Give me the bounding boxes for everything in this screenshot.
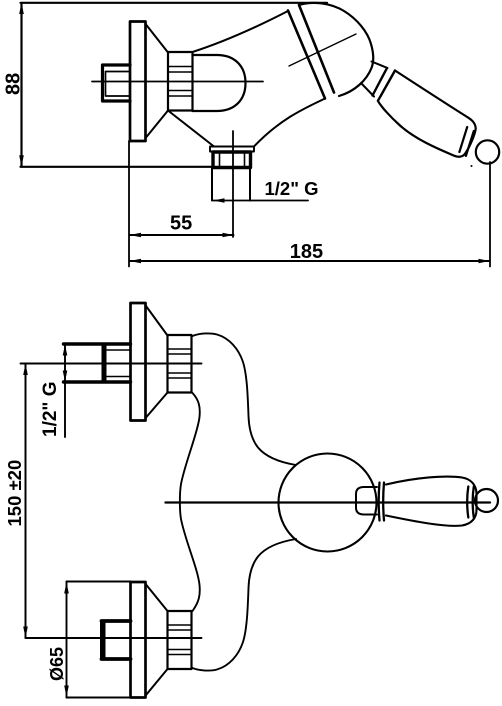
dimension O65 line <box>64 582 69 698</box>
lower inlet centerline <box>26 637 202 639</box>
upper inlet union pipe <box>64 344 131 382</box>
svg-text:1/2" G: 1/2" G <box>265 178 319 199</box>
flange extension line down to dims <box>128 141 130 267</box>
dimension 185 right extension line <box>489 162 491 267</box>
svg-text:185: 185 <box>290 241 323 263</box>
svg-text:Ø65: Ø65 <box>47 647 67 681</box>
handset axis centerline <box>289 34 356 66</box>
neck collar rings front view <box>379 483 384 521</box>
dimension 185 line <box>130 259 490 264</box>
wall flange side view <box>130 22 146 142</box>
neck collar rings <box>373 68 396 101</box>
dimension 88 vertical line <box>19 3 24 167</box>
lower threaded collar <box>168 611 192 669</box>
upper inlet centerline <box>21 363 202 365</box>
valve body circle front view <box>279 454 377 552</box>
centerline of body side view <box>92 81 263 83</box>
handset head outline <box>299 3 373 96</box>
handset neck <box>361 62 388 97</box>
body right upper outline <box>193 333 297 465</box>
lower inlet union nut <box>100 621 131 659</box>
outlet centerline vertical <box>232 131 234 237</box>
flange cone side view <box>146 25 168 138</box>
grip end rings front view <box>467 487 474 518</box>
speck <box>471 165 473 167</box>
lower wall flange front view <box>131 582 146 698</box>
svg-text:150 ±20: 150 ±20 <box>4 460 25 527</box>
svg-text:1/2" G: 1/2" G <box>40 382 61 437</box>
outlet cone left edge <box>168 111 214 147</box>
handle ball end <box>476 140 499 163</box>
upper wall flange front view <box>131 303 146 421</box>
handle ball front view <box>475 489 498 512</box>
body left waist outline <box>180 393 200 611</box>
svg-text:55: 55 <box>170 213 192 235</box>
svg-text:88: 88 <box>3 73 25 95</box>
valve dome side view <box>193 55 246 111</box>
handset seam line inner <box>288 11 325 99</box>
handle grip front view <box>386 477 477 526</box>
lower flange cone <box>146 585 168 696</box>
body right lower outline <box>193 539 297 671</box>
upper flange cone <box>146 306 168 418</box>
body arm top edge to handset <box>193 11 289 52</box>
dimension 150 +-20 vertical line <box>23 364 28 639</box>
O65 bottom extension line <box>67 697 131 699</box>
dimension 88 bottom reference line <box>21 166 213 168</box>
body bottom edge down to outlet <box>254 99 325 147</box>
dimension 1/2 G line <box>63 344 68 437</box>
handle neck stub front view <box>356 487 377 515</box>
dimension 55 line <box>130 233 234 238</box>
outlet pipe <box>212 168 250 201</box>
O65 top extension line <box>67 581 131 583</box>
grip end rings <box>459 127 473 156</box>
handle grip side view <box>378 71 476 157</box>
outlet nut <box>213 152 251 168</box>
1/2 G leader line <box>213 198 308 203</box>
dimension 88 top reference line <box>21 2 328 4</box>
inlet hex nut side view <box>103 65 131 101</box>
threaded collar side view <box>168 52 193 111</box>
main centerline front view <box>166 501 491 503</box>
outlet flange <box>210 147 254 152</box>
handset seam line outer <box>299 5 334 93</box>
upper threaded collar <box>168 335 192 393</box>
